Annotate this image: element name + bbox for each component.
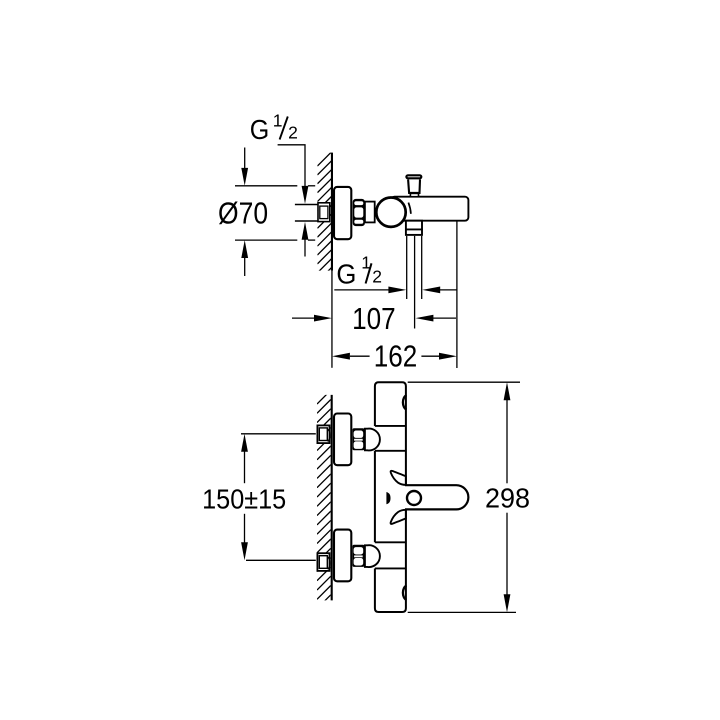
body division line 1 <box>375 425 406 427</box>
wall hatching (front view) <box>317 390 331 608</box>
wall hatching (side view) <box>317 152 332 282</box>
supply pipe in wall <box>295 204 318 206</box>
dimension Ø70 extension line bottom <box>235 239 297 241</box>
extension line body bottom <box>408 611 516 613</box>
extension line top inlet <box>241 433 316 435</box>
svg-text:G: G <box>250 113 269 145</box>
wall line (front view) <box>331 395 333 601</box>
hose line left <box>406 236 408 299</box>
spout (front view) <box>405 485 468 509</box>
square fitting top inlet <box>317 425 329 443</box>
union hex nut top (front view) <box>353 428 365 450</box>
faucet body (horizontal) <box>391 197 468 221</box>
svg-text:1: 1 <box>273 111 283 131</box>
svg-text:2: 2 <box>372 267 382 287</box>
svg-text:G: G <box>336 258 356 290</box>
diverter knob stem <box>408 180 420 193</box>
temperature mark (filled) <box>386 492 390 504</box>
wall escutcheon flange (side view) <box>334 187 351 239</box>
wall extension line down to 162 dimension <box>331 271 333 368</box>
extension line body top <box>408 381 520 383</box>
faucet body (vertical, front view) <box>375 382 406 484</box>
check valve bump bottom <box>403 586 407 600</box>
dimension 298 line and arrows <box>504 382 511 400</box>
svg-text:Ø70: Ø70 <box>218 198 268 231</box>
dimension 107 line and arrows <box>292 317 315 319</box>
body division line 2 <box>375 450 406 452</box>
union hex nut bottom (front view) <box>353 545 365 567</box>
extension line bottom inlet <box>246 559 316 561</box>
svg-text:298: 298 <box>485 482 530 514</box>
dimension 150±15 line and arrows <box>241 434 248 452</box>
connector sleeve <box>365 202 375 223</box>
handle circle (thermostat knob, side view) <box>376 198 405 227</box>
svg-text:107: 107 <box>352 303 396 336</box>
square fitting on supply pipe <box>318 203 330 222</box>
check valve bump top <box>403 395 407 409</box>
wall line (side view) <box>331 153 333 271</box>
diverter knob neck <box>410 193 418 196</box>
spout bottom wing <box>391 510 406 524</box>
square fitting bottom inlet <box>317 553 329 571</box>
dimension Ø70 line and arrows <box>244 148 246 169</box>
hose line right <box>421 236 423 299</box>
diverter knob cap <box>406 175 421 178</box>
right extension line (spout end) <box>456 222 458 369</box>
svg-text:162: 162 <box>374 340 418 373</box>
outlet nut line <box>405 228 423 230</box>
leader line G1/2 top <box>278 145 305 187</box>
dimension 162 line and arrows <box>332 353 350 360</box>
outlet center extension line <box>414 236 416 329</box>
dimension G1/2 hose line and arrows <box>334 289 389 291</box>
body division line 3 <box>375 541 406 543</box>
union hex nut (side view) <box>353 199 364 225</box>
escutcheon flange top <box>334 414 351 466</box>
bath outlet block <box>406 221 422 235</box>
escutcheon flange bottom <box>334 530 351 582</box>
union dome top <box>365 429 380 451</box>
spout ring <box>407 491 421 505</box>
svg-text:2: 2 <box>288 122 298 142</box>
body edge arc right of handle <box>408 203 411 214</box>
spout top wing <box>391 471 406 485</box>
union dome bottom <box>365 545 380 567</box>
dimension Ø70 extension line top <box>235 185 297 187</box>
svg-text:150±15: 150±15 <box>202 484 286 515</box>
body division line 4 <box>375 567 406 569</box>
